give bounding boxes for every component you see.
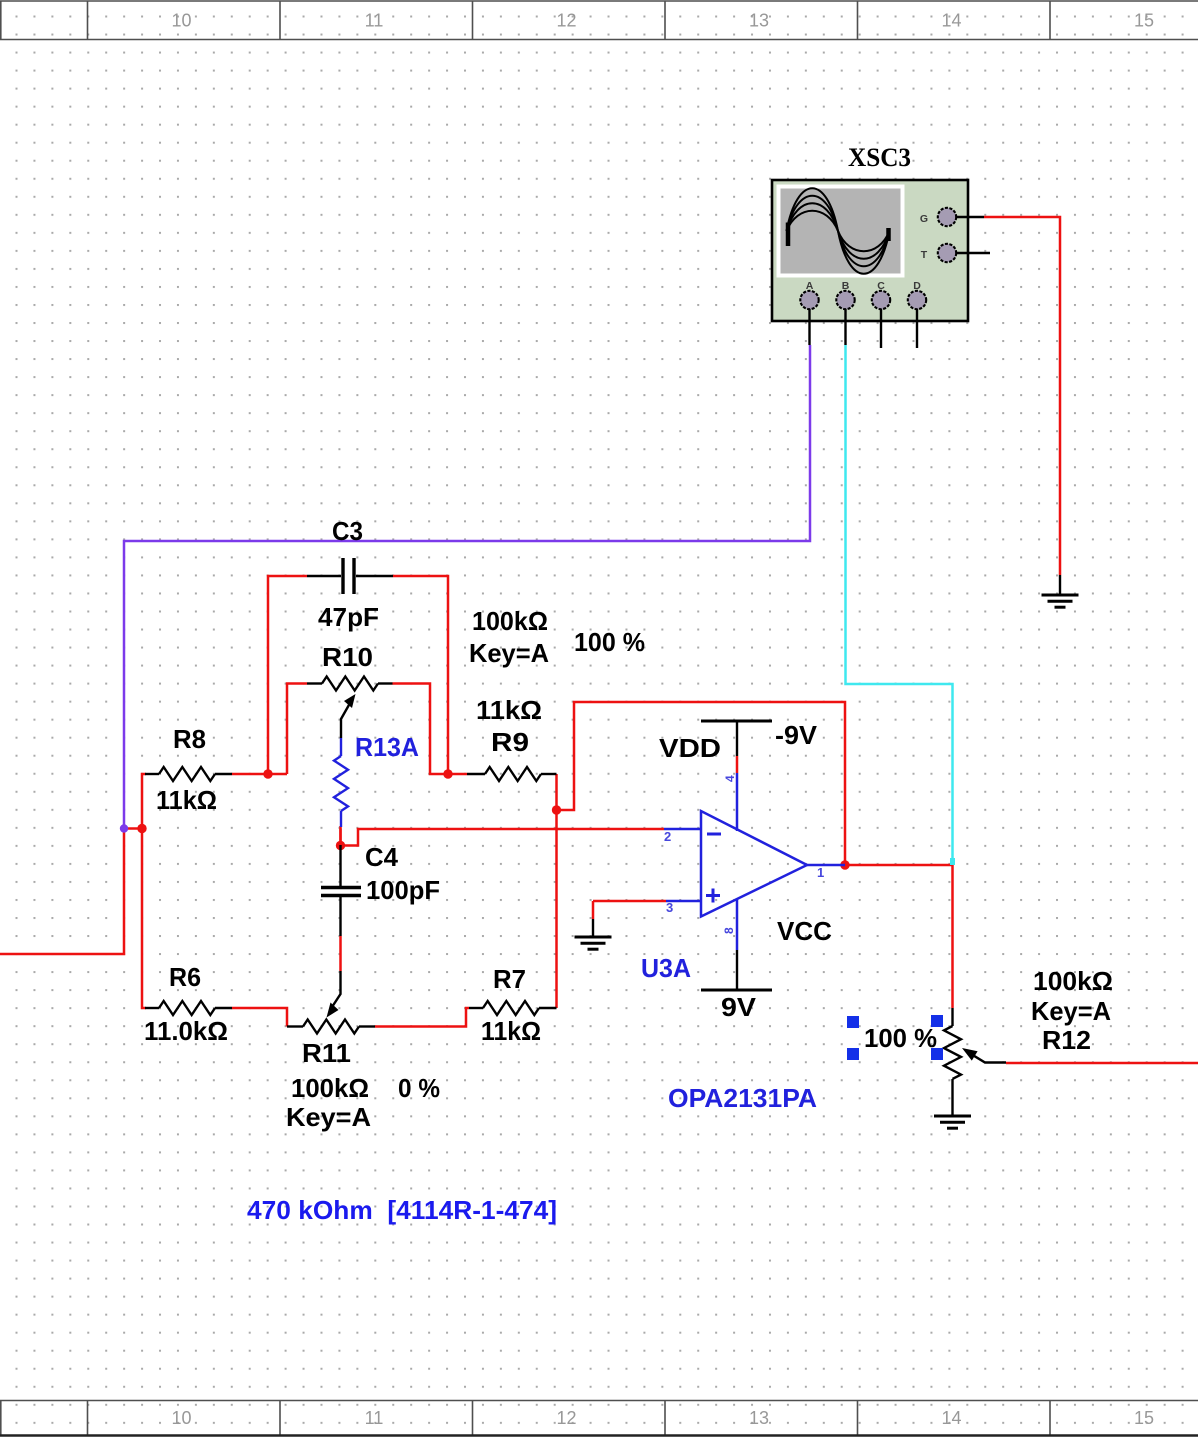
svg-text:1: 1 <box>817 865 824 880</box>
svg-text:-9V: -9V <box>775 720 818 750</box>
wire junction down to R6 <box>142 829 146 1009</box>
wire output junction to R12 <box>845 865 953 1008</box>
svg-text:R12: R12 <box>1042 1025 1091 1055</box>
svg-text:100 %: 100 % <box>574 627 645 657</box>
wire left input exiting image <box>0 829 124 955</box>
svg-text:VDD: VDD <box>659 733 721 763</box>
oscilloscope XSC3 body <box>772 180 968 321</box>
svg-text:C4: C4 <box>365 842 399 872</box>
wire cyan scope B channel <box>846 345 953 864</box>
svg-text:13: 13 <box>749 1408 769 1428</box>
svg-text:14: 14 <box>941 11 961 31</box>
resistor R7 11k <box>469 1007 483 1009</box>
scope pin stubs <box>810 217 991 348</box>
svg-text:C: C <box>877 280 885 292</box>
selection handles (blue squares) <box>847 1015 943 1060</box>
node junction dots <box>137 769 849 869</box>
resistor R6 11.0k <box>145 1007 159 1009</box>
svg-text:4: 4 <box>723 775 737 782</box>
wire R10 right down to node B <box>393 684 449 775</box>
svg-text:C3: C3 <box>332 516 363 546</box>
VDD power bar <box>701 720 772 723</box>
svg-text:XSC3: XSC3 <box>848 143 911 172</box>
op-amp plus <box>706 889 720 903</box>
wire junction up to R8 <box>142 774 146 829</box>
potentiometer R11 100k <box>287 1025 303 1027</box>
svg-text:R6: R6 <box>169 962 201 992</box>
purple wire end dot <box>120 824 128 832</box>
VCC power bar <box>701 989 772 992</box>
svg-text:R8: R8 <box>173 724 206 754</box>
svg-text:100kΩ: 100kΩ <box>1033 966 1113 996</box>
svg-text:Key=A: Key=A <box>286 1102 371 1132</box>
op-amp U3A triangle <box>701 811 807 917</box>
svg-text:A: A <box>806 280 814 292</box>
potentiometer R10 100k <box>307 682 322 684</box>
wire C4 bottom to R11 wiper <box>339 936 342 971</box>
capacitor C4 100pF <box>339 845 341 886</box>
potentiometer R12 100k <box>951 1008 953 1026</box>
op-amp output lead pin1 <box>807 864 845 867</box>
wire purple scope A channel <box>124 345 810 829</box>
svg-text:100kΩ: 100kΩ <box>472 606 548 636</box>
svg-text:11: 11 <box>365 11 384 31</box>
svg-text:VCC: VCC <box>777 916 832 946</box>
wire purple-dot to R8/R6 junction <box>124 827 142 830</box>
wire node A up to R10 left <box>287 684 307 775</box>
wire feedback branch to output <box>557 702 846 864</box>
svg-text:11kΩ: 11kΩ <box>476 695 542 725</box>
svg-text:15: 15 <box>1134 1408 1154 1428</box>
scope screen <box>777 185 905 278</box>
svg-text:3: 3 <box>666 900 673 915</box>
svg-text:12: 12 <box>556 1408 576 1428</box>
svg-text:T: T <box>921 249 928 261</box>
svg-text:13: 13 <box>749 11 769 31</box>
wire R13A bottom red segment <box>339 826 342 845</box>
svg-text:12: 12 <box>556 11 576 31</box>
op-amp minus <box>707 833 721 836</box>
wire R9 right down to R7 right <box>555 774 558 1008</box>
svg-text:OPA2131PA: OPA2131PA <box>668 1083 817 1113</box>
wire pin3 to ground <box>593 901 666 919</box>
svg-text:470 kOhm [4114R-1-474]: 470 kOhm [4114R-1-474] <box>247 1195 557 1225</box>
svg-text:100pF: 100pF <box>366 875 440 905</box>
top ruler <box>0 1 1198 40</box>
capacitor C3 47pF <box>307 575 341 577</box>
svg-text:11: 11 <box>365 1408 384 1428</box>
resistor R8 11k <box>145 773 159 775</box>
bottom ruler <box>0 1401 1198 1436</box>
R11 wiper arrow from C4 <box>333 971 341 1006</box>
svg-text:100kΩ: 100kΩ <box>291 1073 369 1103</box>
svg-text:11kΩ: 11kΩ <box>481 1016 541 1046</box>
ground below R12 <box>951 1079 953 1115</box>
svg-text:R9: R9 <box>491 727 529 757</box>
svg-text:U3A: U3A <box>641 953 691 983</box>
ground below scope G wire <box>1059 575 1061 594</box>
wire node A up to C3 left <box>268 576 307 774</box>
svg-text:Key=A: Key=A <box>469 638 549 668</box>
wire R12 wiper to right edge <box>1006 1062 1198 1065</box>
svg-text:9V: 9V <box>721 992 757 1022</box>
svg-text:R7: R7 <box>493 964 526 994</box>
wire R11 right to R7 left <box>375 1008 469 1027</box>
svg-text:10: 10 <box>171 1408 191 1428</box>
svg-text:14: 14 <box>941 1408 961 1428</box>
op-amp pin2 lead <box>664 828 701 831</box>
wire R8 to node A junction <box>232 773 287 776</box>
wire R6 right to R11 left <box>232 1008 287 1027</box>
ground at opamp pin3 <box>592 919 594 936</box>
wire scope G to ground <box>984 217 1060 575</box>
wire C3 right down to node B <box>393 576 448 774</box>
R10 wiper arrow <box>341 704 350 738</box>
svg-text:Key=A: Key=A <box>1031 996 1111 1026</box>
svg-text:B: B <box>842 280 850 292</box>
svg-text:11kΩ: 11kΩ <box>156 785 217 815</box>
svg-text:2: 2 <box>664 829 671 844</box>
svg-text:10: 10 <box>171 11 191 31</box>
resistor R9 11k <box>467 773 485 775</box>
scope knobs G T A B C D <box>938 208 956 226</box>
resistor R13A (blue) <box>340 738 342 756</box>
wire net output of R13A/C4 to opamp pin2 <box>341 829 665 846</box>
svg-text:R13A: R13A <box>355 732 419 762</box>
svg-text:15: 15 <box>1134 11 1154 31</box>
scope sine curves <box>787 188 890 274</box>
svg-text:47pF: 47pF <box>318 602 379 632</box>
op-amp pin3 lead <box>666 900 701 903</box>
svg-text:R11: R11 <box>302 1038 351 1068</box>
svg-text:D: D <box>913 280 921 292</box>
cyan wire end mark <box>950 858 955 865</box>
svg-text:100 %: 100 % <box>864 1023 937 1053</box>
op-amp bottom power stem <box>736 899 739 950</box>
op-amp top power stem <box>736 773 739 831</box>
scope terminal letters <box>806 213 928 292</box>
svg-text:0 %: 0 % <box>398 1073 440 1103</box>
wire VDD red segment <box>736 756 739 773</box>
svg-text:R10: R10 <box>322 642 373 672</box>
wire node B to R9 left <box>448 773 467 776</box>
R12 wiper arrow <box>974 1056 1006 1063</box>
svg-text:G: G <box>920 213 928 225</box>
svg-text:8: 8 <box>722 927 736 934</box>
svg-text:11.0kΩ: 11.0kΩ <box>144 1016 228 1046</box>
